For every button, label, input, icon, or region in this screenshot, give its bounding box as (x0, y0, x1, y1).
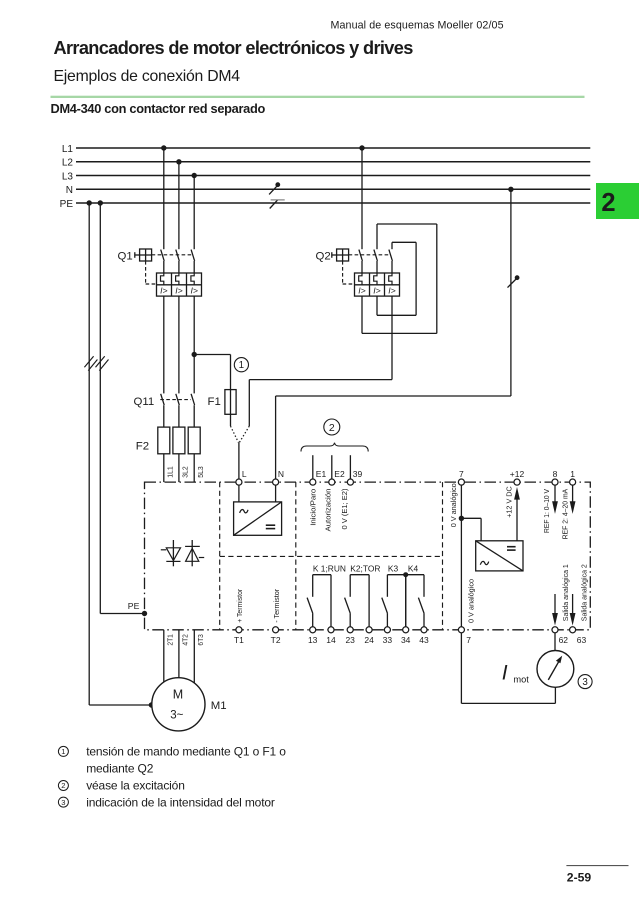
terminal 8 top (552, 469, 558, 485)
wire Q1 pole2 out (178, 296, 180, 393)
terminal 1 top (570, 469, 576, 485)
svg-text:K4: K4 (408, 564, 419, 574)
svg-text:33: 33 (383, 635, 393, 645)
svg-text:K 1;RUN: K 1;RUN (313, 564, 346, 574)
svg-text:I>: I> (160, 286, 167, 296)
terminal E2 top (329, 469, 345, 485)
svg-text:T1: T1 (234, 635, 244, 645)
arrow REF2 (570, 485, 576, 514)
document title (54, 38, 414, 58)
svg-text:L3: L3 (62, 171, 74, 182)
wire L2 to Q1 pole2 (178, 162, 180, 249)
svg-text:63: 63 (577, 635, 587, 645)
label REF2 (561, 488, 570, 539)
terminal 7 top (458, 469, 464, 485)
svg-text:K2;TOR: K2;TOR (350, 564, 380, 574)
svg-text:5L3: 5L3 (196, 466, 205, 478)
wire Q1 pole1 out (163, 296, 165, 393)
block divider dashed 2 (295, 482, 297, 630)
svg-text:Arrancadores de motor electrón: Arrancadores de motor electrónicos y dri… (54, 38, 414, 58)
label salida analogica 1 (561, 564, 570, 621)
terminal 39 top (347, 469, 362, 485)
terminal 14 bottom (326, 627, 336, 645)
legend mark 2 (58, 781, 68, 791)
svg-text:M: M (173, 688, 183, 702)
terminal N top (273, 469, 285, 485)
breaker Q2 (316, 249, 400, 296)
svg-text:2T1: 2T1 (166, 634, 175, 646)
wire E1 stub (312, 455, 314, 479)
svg-text:7: 7 (459, 469, 464, 479)
svg-text:mot: mot (513, 674, 529, 684)
terminal 62 bottom (552, 627, 568, 645)
relay contact K4 (406, 564, 424, 627)
optional feed Q2 dotted (239, 426, 249, 442)
motor M1 (152, 678, 227, 731)
PE rail disconnect link (270, 200, 285, 209)
arrow REF1 (552, 485, 558, 514)
svg-text:3L2: 3L2 (181, 466, 190, 478)
terminal label 5L3 (196, 466, 205, 478)
svg-text:Inicio/Paro: Inicio/Paro (309, 489, 318, 526)
label 0V E1E2 (340, 488, 349, 529)
svg-text:DM4-340 con contactor red sepa: DM4-340 con contactor red separado (51, 101, 266, 116)
terminal label 1L1 (166, 466, 175, 478)
wire branch to F1 (194, 355, 230, 390)
contactor Q11 (134, 394, 195, 427)
svg-text:1: 1 (61, 747, 65, 756)
svg-text:2-59: 2-59 (567, 871, 592, 885)
svg-text:E1: E1 (316, 469, 327, 479)
label - Termistor (272, 588, 281, 622)
node L1-Q2 (359, 145, 364, 150)
node PE-block (142, 611, 147, 616)
wire PE to block (100, 203, 144, 614)
svg-text:62: 62 (559, 635, 569, 645)
svg-text:I>: I> (388, 286, 395, 296)
svg-text:F1: F1 (208, 396, 221, 408)
power supply U2 (476, 541, 523, 571)
svg-text:13: 13 (308, 635, 318, 645)
node L3-Q1 (192, 173, 197, 178)
rail L1 (62, 144, 590, 155)
brace over control terminals (301, 443, 368, 452)
block divider dashed horizontal (220, 555, 443, 557)
svg-text:23: 23 (345, 635, 355, 645)
meter return wire (461, 633, 555, 704)
svg-text:M1: M1 (211, 700, 227, 712)
circled note 3 (578, 675, 592, 689)
svg-text:24: 24 (364, 635, 374, 645)
green chapter tab 2 (596, 183, 639, 219)
node PE tap 2 (98, 200, 103, 205)
svg-text:3: 3 (61, 798, 65, 807)
section heading (51, 101, 266, 116)
label salida analogica 2 (579, 564, 588, 621)
svg-text:+ Termistor: + Termistor (235, 588, 244, 622)
soft starter block border (145, 482, 591, 630)
wire 39 stub (349, 455, 351, 479)
node 0V branch (459, 516, 464, 521)
svg-text:L: L (242, 469, 247, 479)
wire 0V to U2 (461, 518, 481, 541)
terminal 7 bottom (458, 627, 471, 645)
svg-text:43: 43 (419, 635, 429, 645)
svg-text:Salida analógica 2: Salida analógica 2 (579, 564, 588, 621)
node motor frame (149, 702, 154, 707)
rail L3 (62, 171, 590, 182)
legend mark 1 (58, 746, 68, 756)
svg-text:Q11: Q11 (134, 396, 155, 408)
wire Q2 pole3 out (249, 296, 392, 426)
node L2-Q1 (176, 159, 181, 164)
svg-text:1L1: 1L1 (166, 466, 175, 478)
svg-text:indicación de la intensidad de: indicación de la intensidad del motor (86, 795, 275, 809)
svg-text:N: N (278, 469, 284, 479)
terminal 63 bottom (570, 627, 587, 645)
node N tap (508, 187, 513, 192)
wire E2 stub (331, 455, 333, 479)
motor lead 4T2 (178, 630, 180, 678)
svg-text:Autorización: Autorización (324, 489, 333, 532)
svg-text:8: 8 (553, 469, 558, 479)
svg-text:3: 3 (582, 677, 588, 688)
svg-text:mediante Q2: mediante Q2 (86, 762, 154, 776)
svg-text:Q2: Q2 (316, 251, 331, 263)
svg-text:Ejemplos de conexión DM4: Ejemplos de conexión DM4 (54, 68, 241, 85)
wire N to block (276, 189, 511, 479)
PE node label (128, 601, 140, 611)
svg-text:2: 2 (329, 422, 335, 434)
svg-text:4T2: 4T2 (181, 634, 190, 646)
arrow +12V DC (514, 487, 520, 541)
terminal 33 bottom (383, 627, 393, 645)
svg-text:2: 2 (601, 189, 615, 217)
label +12V DC (505, 486, 514, 518)
svg-text:I>: I> (373, 286, 380, 296)
wire Q1 pole3 out (193, 296, 195, 393)
svg-text:REF 1: 0–10 V: REF 1: 0–10 V (542, 488, 551, 533)
terminal L top (236, 469, 247, 485)
svg-text:Q1: Q1 (118, 251, 133, 263)
svg-text:véase la excitación: véase la excitación (86, 779, 185, 793)
fuse F2 (136, 427, 200, 482)
svg-text:7: 7 (466, 635, 471, 645)
svg-text:L1: L1 (62, 144, 74, 155)
green divider rule (51, 96, 585, 98)
svg-text:T2: T2 (271, 635, 281, 645)
page header text (331, 20, 504, 32)
document subtitle (54, 68, 241, 85)
svg-text:1: 1 (239, 360, 244, 371)
terminal 13 bottom (308, 627, 318, 645)
legend line 1 (86, 745, 286, 776)
terminal +12 top (510, 469, 525, 485)
wire Q2 pole1 loop (362, 224, 437, 333)
svg-text:+12 V DC: +12 V DC (505, 486, 514, 518)
wire L1 to Q1 pole1 (163, 148, 165, 249)
terminal 23 bottom (345, 627, 355, 645)
svg-text:2: 2 (61, 781, 65, 790)
rail PE (60, 199, 591, 210)
svg-text:0 V analógico: 0 V analógico (449, 483, 458, 527)
svg-text:N: N (66, 185, 73, 196)
N rail disconnect link (269, 182, 280, 194)
svg-text:14: 14 (326, 635, 336, 645)
svg-text:1: 1 (570, 469, 575, 479)
terminal 34 bottom (401, 627, 411, 645)
wire L3 to Q1 pole3 (193, 176, 195, 250)
thyristor pair (161, 540, 204, 566)
fuse F1 (208, 390, 237, 415)
arrow salida 1 (552, 594, 558, 626)
wire 62 to meter (554, 633, 556, 651)
svg-text:0 V analógico: 0 V analógico (467, 579, 476, 623)
svg-text:PE: PE (60, 199, 74, 210)
svg-text:REF 2: 4–20 mA: REF 2: 4–20 mA (561, 488, 570, 539)
svg-text:39: 39 (353, 469, 363, 479)
rail N (66, 185, 591, 196)
relay contact K3 (382, 564, 406, 627)
terminal 24 bottom (364, 627, 374, 645)
block divider dashed 1 (219, 482, 221, 630)
svg-text:34: 34 (401, 635, 411, 645)
svg-text:3~: 3~ (170, 710, 183, 722)
relay contact K1 (307, 564, 346, 627)
N wire disconnect link (508, 275, 520, 287)
svg-text:+12: +12 (510, 469, 525, 479)
legend line 3 (86, 795, 275, 809)
label 0V analogico top (449, 483, 458, 527)
svg-text:L2: L2 (62, 158, 74, 169)
svg-text:I>: I> (190, 286, 197, 296)
terminal E1 top (310, 469, 327, 485)
svg-text:Manual de esquemas Moeller 02/: Manual de esquemas Moeller 02/05 (331, 20, 504, 32)
terminal T2 bottom (271, 627, 281, 645)
svg-text:E2: E2 (334, 469, 345, 479)
terminal 43 bottom (419, 627, 429, 645)
circled note 1 (234, 358, 248, 372)
PE block wire break marks (96, 356, 109, 370)
block divider dashed 3 (442, 482, 444, 630)
svg-text:F2: F2 (136, 440, 149, 452)
optional feed F1 dotted (231, 426, 239, 442)
terminal label 4T2 (181, 634, 190, 646)
svg-text:PE: PE (128, 601, 140, 611)
rail L2 (62, 158, 590, 169)
wire L1 to Q2 pole1 (361, 148, 363, 249)
label + Termistor (235, 588, 244, 622)
terminal T1 bottom (234, 627, 244, 645)
legend line 2 (86, 779, 185, 793)
wire 0V analog (460, 485, 462, 627)
svg-text:0 V (E1; E2): 0 V (E1; E2) (340, 488, 349, 529)
terminal label 2T1 (166, 634, 175, 646)
svg-text:I>: I> (358, 286, 365, 296)
label I mot (502, 662, 530, 685)
node L3-F1 branch (192, 352, 197, 357)
wire F1 out (230, 414, 232, 426)
arrow salida 2 (570, 594, 576, 626)
svg-text:- Termistor: - Termistor (272, 588, 281, 622)
power supply U1 (234, 485, 282, 535)
terminal label 6T3 (196, 634, 205, 646)
node K3-K4 common (403, 572, 408, 577)
motor lead 6T3 (193, 630, 195, 683)
label Autorizacion (324, 489, 333, 532)
svg-text:I>: I> (175, 286, 182, 296)
svg-text:Salida analógica 1: Salida analógica 1 (561, 564, 570, 621)
svg-text:tensión de mando mediante Q1 o: tensión de mando mediante Q1 o F1 o (86, 745, 286, 759)
PE motor wire break marks (84, 356, 97, 370)
svg-text:6T3: 6T3 (196, 634, 205, 646)
wire Q2 pole2 loop (377, 242, 416, 315)
breaker Q1 (118, 249, 202, 296)
legend mark 3 (58, 797, 68, 807)
label Inicio/Paro (309, 489, 318, 526)
label REF1 (542, 488, 551, 533)
node L1-Q1 (161, 145, 166, 150)
wire to terminal L (238, 442, 240, 479)
node PE tap 1 (87, 200, 92, 205)
ammeter (537, 651, 574, 688)
relay contact K2 (345, 564, 381, 627)
page number (567, 871, 592, 885)
wire PE to motor frame (89, 203, 152, 705)
footer rule (566, 865, 628, 867)
label 0V analogico bottom (467, 579, 476, 623)
terminal label 3L2 (181, 466, 190, 478)
svg-text:K3: K3 (388, 564, 399, 574)
svg-text:I: I (502, 662, 508, 685)
motor lead 2T1 (163, 630, 165, 682)
circled note 2 (324, 419, 340, 435)
